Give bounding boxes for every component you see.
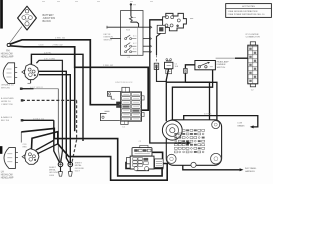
svg-text:IGNITION: IGNITION <box>104 37 114 39</box>
column connector C2 top box <box>132 145 152 156</box>
wire RH ground 1 <box>39 71 70 163</box>
svg-text:HEADLAMP: HEADLAMP <box>1 56 14 59</box>
wire battery feed to junction block left <box>10 40 120 105</box>
wire LH pin diagonal A <box>36 140 55 150</box>
wire terminal to switch <box>130 5 132 16</box>
svg-text:WHT 296: WHT 296 <box>1 88 11 90</box>
ground G104 terminal <box>58 162 63 176</box>
wire branch down to LH circuit <box>74 67 76 131</box>
splice node S100 <box>7 43 10 46</box>
svg-text:2 RED 442: 2 RED 442 <box>103 65 114 67</box>
headlamp switch connector <box>163 13 187 30</box>
inline connector symbol <box>184 69 188 74</box>
wire dashed ground <box>21 99 77 163</box>
circuit breaker C2 <box>165 59 173 74</box>
wire junction feed to column <box>166 82 209 121</box>
svg-text:2 RED 442: 2 RED 442 <box>53 44 64 46</box>
label stub 3 <box>1 116 13 122</box>
wire low beams <box>184 116 258 127</box>
label C1S <box>23 144 28 149</box>
svg-text:0.8 LT GRN: 0.8 LT GRN <box>44 59 55 61</box>
svg-text:G104: G104 <box>49 175 55 177</box>
svg-text:0.8 PPL: 0.8 PPL <box>44 52 52 54</box>
dimmer switch label <box>217 60 230 69</box>
IP cluster label <box>246 34 260 39</box>
wire LH route B <box>32 132 168 181</box>
RH headlamp connector C100 <box>22 64 39 80</box>
wire connector box down to column <box>154 33 166 81</box>
svg-text:SWITCH: SWITCH <box>217 67 226 69</box>
svg-text:RUN: RUN <box>126 30 131 32</box>
svg-text:RED: RED <box>23 146 28 148</box>
svg-text:INST PANEL: INST PANEL <box>245 167 257 170</box>
wire column switch to ground strap <box>183 165 240 170</box>
multifunction switch hub <box>162 120 182 140</box>
svg-text:HEADLAMP: HEADLAMP <box>217 60 230 63</box>
svg-text:2 SEE POWER DISTRIBUTION CEL: 2 SEE POWER DISTRIBUTION CELL 10 <box>228 14 266 16</box>
svg-text:LOW: LOW <box>238 123 243 125</box>
border frame fragment lower <box>0 146 2 154</box>
svg-text:C BRKT 296: C BRKT 296 <box>1 104 13 106</box>
wire HI beam indicator stub <box>20 88 60 163</box>
wire loop under column connector <box>126 152 163 168</box>
wire dimmer to column 2 <box>185 82 217 121</box>
column connector main body <box>127 156 154 171</box>
battery junction block label <box>43 14 56 23</box>
svg-text:HIGH-LOW: HIGH-LOW <box>1 175 14 177</box>
wire dimmer bottom pin to column <box>172 70 212 122</box>
wire battery to splice <box>9 27 22 44</box>
svg-text:CONNECTOR: CONNECTOR <box>246 37 260 39</box>
wire LH route A <box>21 128 162 176</box>
svg-text:KEY IN: KEY IN <box>104 34 111 36</box>
svg-text:ORN/BLK 2.0: ORN/BLK 2.0 <box>1 85 14 87</box>
multifunction switch body <box>166 120 221 168</box>
wire into column switch with arrowhead <box>166 141 191 144</box>
arrowhead ground strap <box>240 168 244 171</box>
svg-text:HOT NOTES: HOT NOTES <box>242 6 255 8</box>
svg-text:HARNESS: HARNESS <box>245 170 255 173</box>
breaker label <box>175 63 179 68</box>
border frame fragment <box>0 0 3 29</box>
note box <box>226 4 272 18</box>
svg-text:DIMMER: DIMMER <box>217 64 226 66</box>
svg-text:METAL: METAL <box>49 169 57 172</box>
svg-text:SWITCH: SWITCH <box>104 39 113 41</box>
label low beams <box>238 123 246 128</box>
label RH headlamp feed <box>1 51 14 59</box>
RH connector bottom stub <box>28 80 31 84</box>
ignition switch internals <box>107 16 152 55</box>
svg-text:LH: LH <box>1 172 4 174</box>
svg-text:JUNCTION BLOCK: JUNCTION BLOCK <box>115 82 133 84</box>
ignition switch pin stubs <box>110 37 151 53</box>
tick marks <box>42 1 45 3</box>
wire RH ground 2 <box>39 75 71 164</box>
svg-text:0.8 BLK 150: 0.8 BLK 150 <box>33 118 45 120</box>
ignition switch label <box>104 34 114 42</box>
wire dimmer to column <box>185 65 195 82</box>
arrowhead low beams <box>250 125 254 128</box>
svg-text:HEADLAMP: HEADLAMP <box>1 177 14 180</box>
inline connector box <box>157 25 165 33</box>
svg-text:A DASH 2.0: A DASH 2.0 <box>1 116 13 119</box>
svg-text:BLOCK: BLOCK <box>43 20 52 23</box>
svg-text:0.8 PNK: 0.8 PNK <box>204 114 212 116</box>
wire battery feed to junction block right <box>10 46 148 110</box>
svg-text:HORN 2.0: HORN 2.0 <box>1 101 11 103</box>
ground G117 terminal <box>68 162 73 176</box>
svg-text:HIGH-LOW: HIGH-LOW <box>1 54 14 56</box>
headlamp dimmer switch box <box>195 61 216 70</box>
tick mark <box>190 18 193 20</box>
svg-text:2 RED 442: 2 RED 442 <box>55 38 66 40</box>
svg-text:BLK 150: BLK 150 <box>1 120 10 122</box>
wire stub at LH <box>20 132 22 143</box>
column connector side box <box>155 159 164 168</box>
svg-text:IP CLUSTER: IP CLUSTER <box>246 34 259 36</box>
LH high-low headlamp <box>4 148 18 169</box>
IP cluster connector body <box>248 42 258 87</box>
svg-text:C2: C2 <box>139 141 141 143</box>
svg-text:1 SEE GROUND DISTRIBUTION: 1 SEE GROUND DISTRIBUTION <box>228 11 258 13</box>
junction block body <box>100 87 144 124</box>
svg-text:A LIGHT AND: A LIGHT AND <box>1 97 14 100</box>
ground label G117 <box>75 163 85 173</box>
wire breaker to column <box>166 69 168 122</box>
wire RH high beam <box>36 60 62 162</box>
svg-text:RH: RH <box>6 51 10 53</box>
wire LH pin diagonal B <box>37 144 58 154</box>
svg-text:G117: G117 <box>75 170 81 172</box>
wire to IP cluster <box>216 57 248 59</box>
LH headlamp label <box>1 172 14 180</box>
label ground strap <box>245 167 257 173</box>
wire RH low beam feed <box>31 54 83 141</box>
svg-text:C100: C100 <box>39 44 45 46</box>
battery junction block <box>18 6 37 30</box>
svg-text:METAL: METAL <box>75 164 83 167</box>
RH high-low headlamp <box>3 63 17 84</box>
ignition switch box <box>121 11 143 56</box>
ignition switch terminal 30 <box>130 4 136 6</box>
multifunction switch contacts <box>174 129 204 153</box>
svg-text:0.8 LT GRN 11: 0.8 LT GRN 11 <box>30 87 44 89</box>
ground label G104 <box>49 167 59 177</box>
LH headlamp connector <box>22 149 39 165</box>
wire headlamp switch to column <box>150 20 167 143</box>
label stub 1 <box>1 85 14 90</box>
wire tail stub <box>21 119 60 162</box>
label stub 2 <box>1 97 14 106</box>
svg-text:BEAMS: BEAMS <box>238 124 246 127</box>
